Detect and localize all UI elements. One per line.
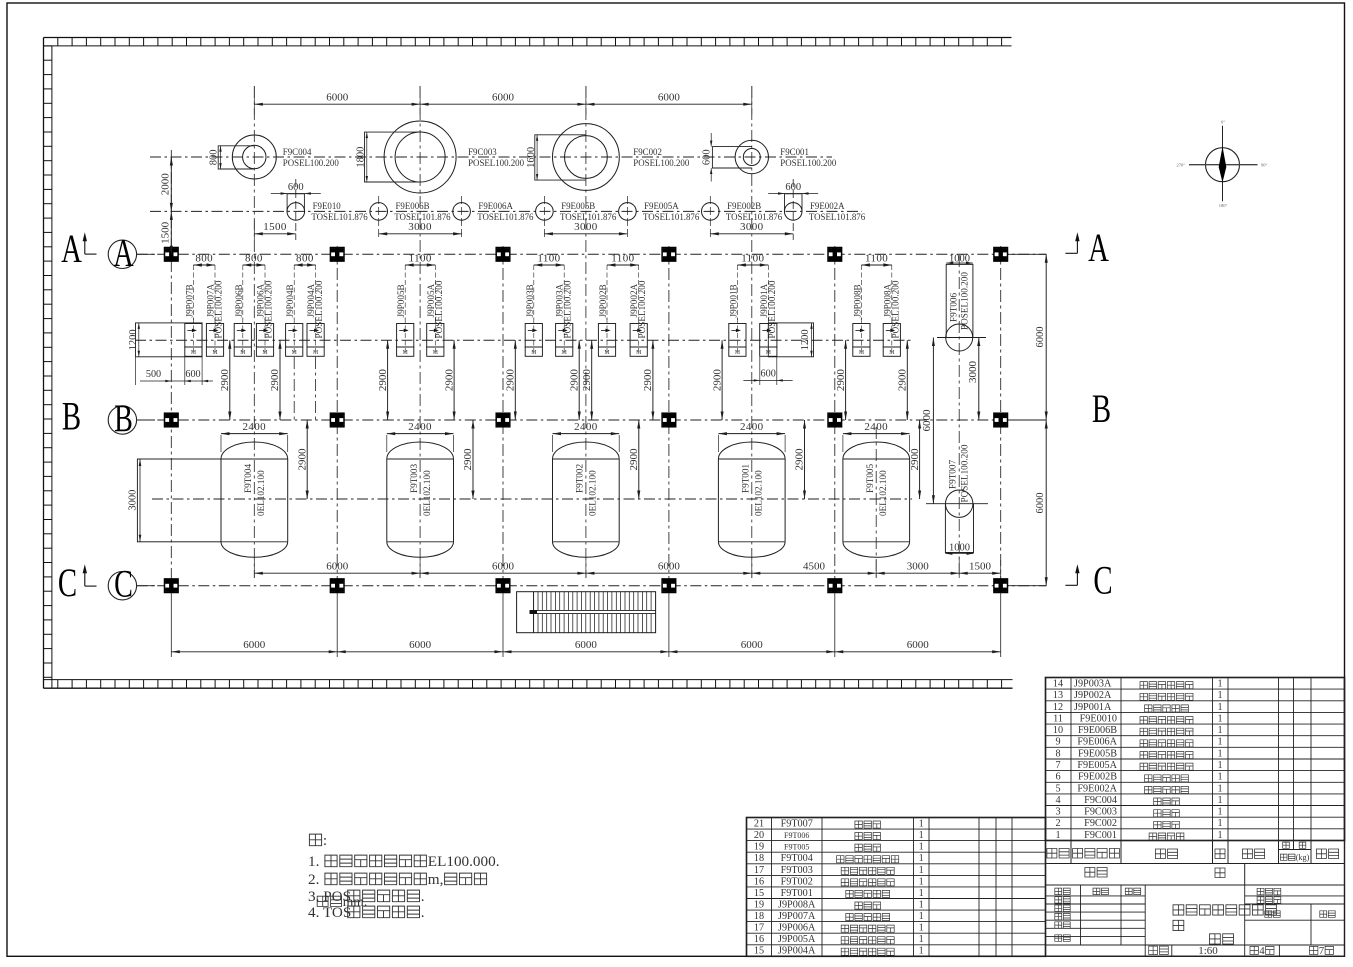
svg-text:EL100.000.: EL100.000. <box>428 853 500 870</box>
svg-text:4: 4 <box>1259 946 1265 957</box>
svg-text:2: 2 <box>1055 818 1060 829</box>
svg-text:2900: 2900 <box>462 448 474 471</box>
svg-text:1500: 1500 <box>263 221 287 233</box>
svg-text:1:60: 1:60 <box>1198 945 1218 957</box>
svg-text:1: 1 <box>919 923 924 934</box>
svg-text:F9T004: F9T004 <box>243 463 253 493</box>
vessel F9T006-F9T007 centerline <box>958 255 960 578</box>
pump pair J9P007 dimension 800 <box>192 265 194 320</box>
tower F9C003 bracket dimension 1800 <box>366 132 368 182</box>
svg-text:F9T006: F9T006 <box>949 292 959 322</box>
svg-text:12: 12 <box>1053 702 1063 713</box>
svg-text:POSEL100.200: POSEL100.200 <box>780 158 837 168</box>
tank F9T003 <box>387 459 454 542</box>
dimension 600 below pump J9P001A <box>759 357 761 385</box>
svg-text:.: . <box>421 904 425 921</box>
svg-text:18: 18 <box>754 853 764 864</box>
svg-text:6: 6 <box>1055 772 1060 783</box>
svg-text:POSEL100.200: POSEL100.200 <box>637 280 647 338</box>
svg-text:0EL102.100: 0EL102.100 <box>754 470 764 516</box>
svg-text:2900: 2900 <box>269 369 281 392</box>
svg-text:6000: 6000 <box>243 639 266 651</box>
left vertical dimension 2000 <box>170 157 172 211</box>
svg-text:2900: 2900 <box>581 369 593 392</box>
pump J9P003A <box>556 324 573 348</box>
svg-text:F9T007: F9T007 <box>947 459 957 489</box>
svg-text:1000: 1000 <box>949 543 970 554</box>
tower-tank centerline 2 <box>419 86 421 578</box>
tower F9C002 support bracket <box>535 135 586 180</box>
svg-text:J9P001B: J9P001B <box>728 284 738 317</box>
svg-text:1: 1 <box>919 819 924 830</box>
svg-text:F9E002A: F9E002A <box>1077 783 1117 794</box>
exchanger row centerline <box>150 210 862 212</box>
svg-text:600: 600 <box>761 368 776 379</box>
pump J9P002A <box>630 324 647 348</box>
exchanger F9E002B <box>709 196 711 240</box>
vertical grid line 1 <box>170 150 172 586</box>
svg-text:F9C004: F9C004 <box>283 147 312 157</box>
tower F9C001 circles <box>735 140 768 173</box>
column A5 <box>828 247 842 261</box>
svg-text:16: 16 <box>754 934 764 945</box>
svg-text:1: 1 <box>919 853 924 864</box>
svg-text:F9T006: F9T006 <box>784 831 809 840</box>
svg-text:J9P006A: J9P006A <box>778 923 816 934</box>
pump J9P001A <box>760 324 777 348</box>
column A6 <box>994 247 1008 261</box>
svg-text:2400: 2400 <box>408 421 432 433</box>
exchanger F9E002A stub dimension 600 <box>768 193 818 195</box>
svg-text:B: B <box>114 398 133 440</box>
svg-text:J9P002B: J9P002B <box>598 284 608 317</box>
column C1 <box>165 579 179 593</box>
svg-text:J9P001A: J9P001A <box>1074 702 1112 713</box>
svg-text:180°: 180° <box>1219 203 1228 208</box>
svg-text:6000: 6000 <box>575 639 598 651</box>
grid row A centerline <box>137 253 1046 255</box>
svg-text:F9T007: F9T007 <box>781 819 813 830</box>
svg-text:3000: 3000 <box>408 221 432 233</box>
svg-text:800: 800 <box>245 252 263 264</box>
svg-text:1600: 1600 <box>526 147 537 168</box>
section arrow A right <box>1076 237 1078 254</box>
svg-text:TOSEL101.876: TOSEL101.876 <box>809 212 866 222</box>
svg-text:2900: 2900 <box>443 369 455 392</box>
svg-text:F9E002B: F9E002B <box>1078 772 1117 783</box>
tank row centerline <box>152 498 912 500</box>
svg-text:F9C001: F9C001 <box>780 147 809 157</box>
svg-text:15: 15 <box>754 946 764 957</box>
drawing border tick band left <box>44 38 52 689</box>
pump J9P006B <box>234 324 251 348</box>
section arrow C left <box>84 569 86 587</box>
svg-text:0EL102.100: 0EL102.100 <box>256 470 266 516</box>
staircase <box>517 592 656 633</box>
svg-text:3000: 3000 <box>907 560 930 572</box>
svg-text:1: 1 <box>1217 690 1222 701</box>
svg-text:19: 19 <box>754 900 764 911</box>
svg-text:600: 600 <box>185 369 200 380</box>
svg-text:J9P003B: J9P003B <box>525 284 535 317</box>
svg-text:1: 1 <box>1217 748 1222 759</box>
svg-text:A: A <box>1088 225 1109 270</box>
tower F9C003 support bracket <box>365 132 421 182</box>
svg-text:1: 1 <box>1055 830 1060 841</box>
exchanger spacing dimension 1500 <box>253 220 255 240</box>
tank F9T002 dimension 2400 <box>552 435 554 452</box>
vessel F9T007 <box>945 504 973 553</box>
svg-text:POSEL100.200: POSEL100.200 <box>314 280 324 338</box>
tower-tank centerline 3 <box>585 86 587 578</box>
svg-text:F9E006B: F9E006B <box>1078 725 1117 736</box>
tower F9C002 bracket dimension 1600 <box>536 135 538 180</box>
svg-text:20: 20 <box>754 830 764 841</box>
svg-text:6000: 6000 <box>1035 493 1046 514</box>
svg-text:2900: 2900 <box>835 369 847 392</box>
svg-text:C: C <box>114 563 133 605</box>
column B1 <box>165 413 179 427</box>
svg-text:6000: 6000 <box>658 91 681 103</box>
svg-text:2900: 2900 <box>568 369 580 392</box>
svg-text:0°: 0° <box>1221 120 1225 125</box>
svg-text:1100: 1100 <box>409 252 432 264</box>
svg-text:J9P008A: J9P008A <box>778 900 816 911</box>
svg-text:6000: 6000 <box>907 639 930 651</box>
svg-text:1500: 1500 <box>159 221 171 244</box>
svg-text:2900: 2900 <box>505 369 517 392</box>
tank F9T005 centerline <box>875 427 877 578</box>
svg-text:F9C002: F9C002 <box>1084 818 1117 829</box>
svg-text:1: 1 <box>1217 818 1222 829</box>
right vertical dimension 6000 A-B and B-C <box>1045 254 1047 585</box>
column A4 <box>662 247 676 261</box>
row label C left circle <box>108 572 136 600</box>
svg-text:1500: 1500 <box>969 560 992 572</box>
vertical grid line 4 <box>668 246 670 586</box>
pump pair J9P003 dimension 1100 <box>533 265 535 320</box>
svg-text:1100: 1100 <box>865 252 888 264</box>
svg-text::: : <box>323 832 327 849</box>
pump pair J9P004 dimension 800 <box>293 265 295 320</box>
pump J9P004A <box>307 324 324 348</box>
svg-text:1800: 1800 <box>355 147 366 168</box>
vertical grid line 2 <box>336 246 338 586</box>
tank F9T005 dimension 2400 <box>842 435 844 452</box>
tower row centerline <box>150 156 832 158</box>
svg-text:3000: 3000 <box>967 361 979 384</box>
svg-text:F9E006B: F9E006B <box>396 201 430 211</box>
BOM header overflow band <box>1046 864 1345 886</box>
svg-text:J9P008B: J9P008B <box>852 284 862 317</box>
vertical grid line 5 <box>834 246 836 586</box>
svg-text:1: 1 <box>919 900 924 911</box>
pump J9P002B <box>598 324 615 348</box>
vessel F9T007 dimension 1000 <box>945 553 973 555</box>
section arrow A left <box>84 237 86 255</box>
svg-text:POSEL100.200: POSEL100.200 <box>890 280 900 338</box>
svg-text:6000: 6000 <box>658 560 681 572</box>
tank F9T001 <box>718 459 785 542</box>
svg-text:F9C002: F9C002 <box>633 147 662 157</box>
pump pair J9P004 centerline extensions <box>293 357 295 420</box>
platform rectangle right (1200) <box>768 323 813 357</box>
left BOM table <box>747 818 1046 957</box>
svg-text:(kg): (kg) <box>1296 853 1310 862</box>
svg-text:6000: 6000 <box>1035 327 1046 348</box>
pump J9P006A <box>256 324 273 348</box>
vessel F9T006 <box>946 264 973 337</box>
svg-text:2900: 2900 <box>296 448 308 471</box>
svg-text:1: 1 <box>919 934 924 945</box>
pump J9P007B <box>185 324 202 348</box>
tank F9T005 <box>843 459 910 542</box>
vessel spacing dimension 6000 vertical <box>932 338 934 504</box>
svg-text:1000: 1000 <box>949 254 970 265</box>
svg-text:1: 1 <box>919 865 924 876</box>
svg-text:2400: 2400 <box>864 421 888 433</box>
svg-text:F9E010: F9E010 <box>313 201 342 211</box>
svg-text:500: 500 <box>146 369 161 380</box>
tank side dimensions 2900 <box>306 420 308 499</box>
title block <box>1046 885 1345 956</box>
svg-text:1: 1 <box>919 911 924 922</box>
tower-tank centerline 1 <box>253 86 255 578</box>
svg-text:J9P006B: J9P006B <box>234 284 244 317</box>
svg-text:14: 14 <box>1053 679 1063 690</box>
exchanger F9E010 <box>287 194 304 212</box>
svg-text:POSEL100.200: POSEL100.200 <box>960 272 970 330</box>
BOM header band <box>1046 841 1345 864</box>
svg-text:POSEL100.200: POSEL100.200 <box>959 444 969 502</box>
vertical grid line 3 <box>502 246 504 586</box>
svg-text:F9E0010: F9E0010 <box>1080 714 1117 725</box>
svg-text:POSEL100.200: POSEL100.200 <box>434 280 444 338</box>
extension lines to right 6000 dimension <box>1008 253 1046 255</box>
exchanger F9E005B <box>543 196 545 240</box>
svg-text:17: 17 <box>754 865 764 876</box>
svg-text:1: 1 <box>919 842 924 853</box>
svg-text:TOSEL101.876: TOSEL101.876 <box>477 212 534 222</box>
svg-text:800: 800 <box>195 252 213 264</box>
column B4 <box>662 413 676 427</box>
svg-text:F9T005: F9T005 <box>784 843 809 852</box>
svg-text:POSEL100.200: POSEL100.200 <box>563 280 573 338</box>
svg-text:2900: 2900 <box>897 369 909 392</box>
tower F9C002 circles <box>553 124 620 191</box>
svg-text:F9C004: F9C004 <box>1084 795 1117 806</box>
svg-text:1: 1 <box>1217 714 1222 725</box>
bottom dimension line 6000 x5 <box>171 651 1000 653</box>
tower F9C001 support bracket <box>712 147 751 168</box>
svg-text:2900: 2900 <box>642 369 654 392</box>
svg-text:4. TOS: 4. TOS <box>308 904 351 921</box>
svg-text:6000: 6000 <box>326 91 349 103</box>
svg-text:1: 1 <box>1217 679 1222 690</box>
svg-text:F9T004: F9T004 <box>781 853 813 864</box>
svg-text:J9P002A: J9P002A <box>1074 690 1112 701</box>
tank spacing dimension line <box>254 572 1000 574</box>
svg-text:F9E005B: F9E005B <box>561 201 595 211</box>
svg-text:F9E006A: F9E006A <box>478 201 513 211</box>
tower-tank centerline 4 <box>751 86 753 578</box>
exchanger F9E010 stub dimension 600 <box>271 193 321 195</box>
pump pair J9P008 dimension 1100 <box>860 265 862 320</box>
svg-text:2900: 2900 <box>909 448 921 471</box>
platform rectangle left (1200) <box>136 323 203 357</box>
svg-text:F9E005A: F9E005A <box>644 201 679 211</box>
svg-text:2400: 2400 <box>242 421 266 433</box>
tank F9T004 <box>221 459 288 542</box>
svg-text:J9P004B: J9P004B <box>285 284 295 317</box>
pump J9P005A <box>427 324 444 348</box>
tank F9T004 dimension 2400 <box>220 435 222 452</box>
pump J9P003B <box>525 324 542 348</box>
svg-text:1200: 1200 <box>800 329 811 350</box>
grid line extensions below row C <box>170 586 172 657</box>
svg-text:F9E002B: F9E002B <box>727 201 761 211</box>
pump row centerline <box>135 339 912 341</box>
svg-text:5: 5 <box>1055 783 1060 794</box>
pump pair J9P002 dimension 1100 <box>606 265 608 320</box>
grid row B centerline <box>137 419 1046 421</box>
tank F9T001 dimension 2400 <box>717 435 719 452</box>
svg-text:17: 17 <box>754 923 764 934</box>
column A3 <box>496 247 510 261</box>
svg-text:1: 1 <box>1217 702 1222 713</box>
svg-text:C: C <box>1093 558 1112 603</box>
svg-text:2400: 2400 <box>740 421 764 433</box>
svg-text:2900: 2900 <box>219 369 231 392</box>
svg-text:POSEL100.200: POSEL100.200 <box>468 158 525 168</box>
svg-text:.: . <box>421 888 425 905</box>
svg-text:F9C003: F9C003 <box>1084 807 1117 818</box>
column C3 <box>496 579 510 593</box>
svg-text:J9P003A: J9P003A <box>1074 679 1112 690</box>
svg-text:8: 8 <box>1055 748 1060 759</box>
svg-text:F9T005: F9T005 <box>865 463 875 493</box>
svg-text:1: 1 <box>919 888 924 899</box>
svg-text:2900: 2900 <box>794 448 806 471</box>
svg-text:1.: 1. <box>308 853 319 870</box>
svg-text:0EL102.100: 0EL102.100 <box>588 470 598 516</box>
row label A left circle <box>108 240 136 268</box>
svg-text:9: 9 <box>1055 737 1060 748</box>
svg-text:F9C001: F9C001 <box>1084 830 1117 841</box>
svg-text:1: 1 <box>919 830 924 841</box>
svg-text:6000: 6000 <box>741 639 764 651</box>
svg-text:3000: 3000 <box>740 221 764 233</box>
svg-text:13: 13 <box>1053 690 1063 701</box>
svg-text:A: A <box>61 226 82 271</box>
pump pair J9P005 dimension 1100 <box>404 265 406 320</box>
svg-text:11: 11 <box>1053 714 1063 725</box>
svg-text:J9P005B: J9P005B <box>396 284 406 317</box>
svg-text:2900: 2900 <box>377 369 389 392</box>
column B6 <box>994 413 1008 427</box>
svg-text:19: 19 <box>754 842 764 853</box>
exchanger spacing dimension 3000 (F9C001) <box>710 233 793 235</box>
pump J9P007A <box>206 324 223 348</box>
svg-text:1: 1 <box>1217 737 1222 748</box>
svg-text:J9P007A: J9P007A <box>778 911 816 922</box>
section arrow C right <box>1076 569 1078 586</box>
pump J9P004B <box>286 324 303 348</box>
svg-text:J9P007B: J9P007B <box>184 284 194 317</box>
svg-text:F9E006A: F9E006A <box>1077 737 1117 748</box>
svg-text:1200: 1200 <box>128 329 139 350</box>
svg-text:1: 1 <box>919 876 924 887</box>
column B5 <box>828 413 842 427</box>
svg-text:POSEL100.200: POSEL100.200 <box>264 280 274 338</box>
exchanger spacing dimension 3000 (F9C003) <box>379 233 462 235</box>
tower F9C004 bracket dimension 800 <box>220 146 222 169</box>
tower F9C001 bracket dimension 600 <box>710 133 712 147</box>
svg-text:1100: 1100 <box>537 252 560 264</box>
svg-text:21: 21 <box>754 819 764 830</box>
svg-text:4500: 4500 <box>803 560 826 572</box>
exchanger F9E002A <box>785 194 803 212</box>
svg-text:F9E005B: F9E005B <box>1078 748 1117 759</box>
svg-text:6000: 6000 <box>921 409 933 432</box>
right BOM table <box>1046 678 1345 841</box>
svg-text:1: 1 <box>1217 760 1222 771</box>
top dimension line 6000 x3 <box>254 103 752 105</box>
svg-text:C: C <box>58 561 77 606</box>
tower F9C004 support bracket <box>218 146 254 169</box>
dimension 500-600 below left pumps <box>184 357 186 385</box>
drawing border tick band top <box>44 38 1012 46</box>
exchanger spacing dimension 3000 (F9C002) <box>544 233 627 235</box>
exchanger F9E006B <box>378 196 380 240</box>
svg-text:TOSEL101.876: TOSEL101.876 <box>643 212 700 222</box>
svg-text:6000: 6000 <box>492 91 515 103</box>
drawing border tick band bottom <box>44 680 1013 689</box>
column B2 <box>330 413 344 427</box>
tank F9T002 <box>553 459 620 542</box>
exchanger F9E005A <box>626 196 628 240</box>
vertical grid line 6 <box>1000 246 1002 586</box>
platform rectangle tank row (3000) <box>137 459 221 542</box>
pump pair J9P001 dimension 1100 <box>736 265 738 320</box>
north compass <box>1206 148 1240 182</box>
column B3 <box>496 413 510 427</box>
svg-text:2000: 2000 <box>159 173 171 196</box>
pump J9P008A <box>883 324 900 348</box>
svg-text:3: 3 <box>1055 807 1060 818</box>
svg-text:15: 15 <box>754 888 764 899</box>
svg-text:1: 1 <box>1217 807 1222 818</box>
row label B left circle <box>108 406 136 434</box>
svg-text:F9T002: F9T002 <box>575 463 585 493</box>
svg-text:6000: 6000 <box>492 560 515 572</box>
exchanger F9E006A <box>461 196 463 240</box>
svg-text:1: 1 <box>919 946 924 957</box>
svg-text:6000: 6000 <box>326 560 349 572</box>
svg-text:90°: 90° <box>1261 163 1268 168</box>
svg-text:0EL102.100: 0EL102.100 <box>422 470 432 516</box>
grid row C centerline <box>137 585 1046 587</box>
svg-text:16: 16 <box>754 876 764 887</box>
svg-text:800: 800 <box>209 150 220 166</box>
svg-text:1: 1 <box>1217 783 1222 794</box>
svg-text:J9P005A: J9P005A <box>778 934 816 945</box>
svg-text:B: B <box>1092 386 1111 431</box>
column A2 <box>330 247 344 261</box>
svg-text:F9T003: F9T003 <box>409 463 419 493</box>
svg-text:18: 18 <box>754 911 764 922</box>
column A1 <box>165 247 179 261</box>
